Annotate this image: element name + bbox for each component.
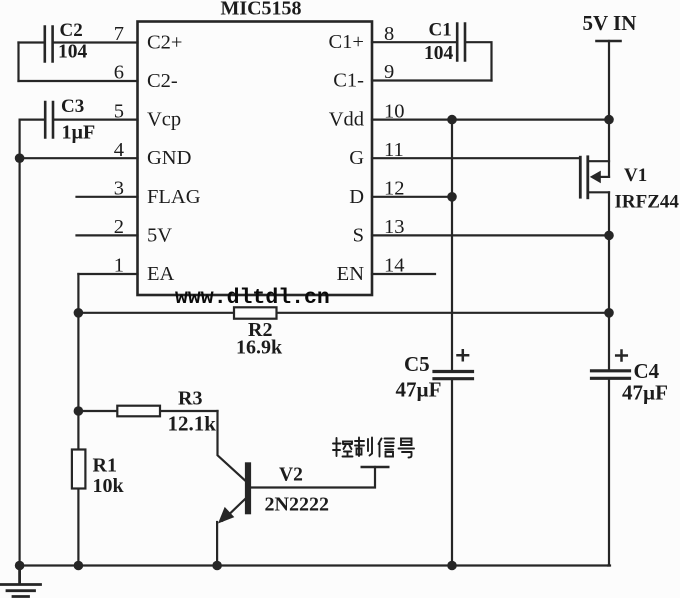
svg-text:C1: C1 [429, 20, 452, 41]
pin 7 wire [19, 41, 138, 43]
pin 3 wire stub [77, 196, 138, 198]
svg-text:4: 4 [114, 139, 124, 161]
pin 5 wire [20, 118, 138, 120]
svg-text:16.9k: 16.9k [236, 337, 283, 359]
svg-text:FLAG: FLAG [147, 186, 201, 208]
resistor R1 [72, 450, 125, 498]
pin 1 wire EA [78, 273, 137, 275]
node 5V IN terminal [597, 40, 621, 43]
pin 2 wire stub [77, 234, 138, 236]
node V2 emitter-bottom junction [212, 561, 222, 571]
pin 12 wire D [372, 196, 452, 198]
svg-text:12.1k: 12.1k [168, 412, 217, 436]
transistor V2 2N2222 [217, 462, 329, 565]
svg-text:MIC5158: MIC5158 [220, 0, 301, 20]
label 控制信号 control signal text [333, 438, 414, 458]
svg-text:1µF: 1µF [62, 122, 96, 144]
transistor V1 MOSFET [580, 157, 679, 213]
node Vdd-5VIN junction [604, 115, 614, 125]
svg-text:10: 10 [384, 100, 405, 122]
svg-text:3: 3 [114, 178, 124, 200]
svg-text:5V IN: 5V IN [583, 11, 637, 35]
svg-text:104: 104 [424, 43, 454, 64]
svg-text:6: 6 [114, 62, 124, 84]
svg-text:IRFZ44: IRFZ44 [615, 192, 680, 213]
resistor R2 wire [78, 312, 609, 314]
op-amp U1 MIC5158 IC body [138, 22, 373, 296]
svg-text:2N2222: 2N2222 [265, 494, 329, 516]
wire C2 loop left vertical [17, 43, 19, 82]
node Vdd-C5 junction [447, 115, 457, 125]
svg-text:Vcp: Vcp [147, 109, 181, 131]
svg-text:5: 5 [114, 100, 124, 122]
pin 10 wire Vdd [372, 118, 609, 120]
svg-text:EN: EN [337, 263, 365, 285]
wire V1 source to S rail [608, 192, 610, 371]
kong [333, 438, 341, 456]
pin 6 wire [19, 80, 138, 82]
svg-text:9: 9 [384, 61, 394, 83]
svg-text:D: D [349, 186, 364, 208]
svg-text:R3: R3 [178, 388, 202, 410]
pin 9 wire [372, 79, 492, 81]
wire C5 branch vertical [451, 120, 453, 372]
node EA-bottom junction [74, 561, 84, 571]
node GND left junction [15, 153, 25, 163]
ground [1, 566, 41, 597]
resistor R2 [234, 307, 283, 358]
node S junction [604, 231, 614, 241]
svg-text:5V: 5V [147, 224, 172, 246]
node control signal terminal [362, 466, 388, 469]
svg-text:Vdd: Vdd [329, 109, 364, 131]
wire EA vertical down [77, 274, 79, 566]
svg-text:www.dltdl.cn: www.dltdl.cn [175, 286, 330, 310]
svg-text:2: 2 [114, 216, 124, 238]
node EA-R2 junction [74, 308, 84, 318]
zhi [355, 438, 364, 457]
svg-text:C1+: C1+ [329, 31, 365, 53]
svg-text:C2-: C2- [147, 70, 178, 92]
svg-text:47µF: 47µF [622, 381, 668, 405]
wire bottom rail [20, 564, 610, 566]
resistor R3 wire [78, 410, 217, 412]
capacitor C1 [424, 20, 465, 65]
svg-text:S: S [353, 224, 364, 246]
xin [379, 439, 382, 457]
pin 11 wire G [372, 157, 580, 159]
svg-text:GND: GND [147, 147, 191, 169]
svg-text:7: 7 [114, 23, 124, 45]
svg-text:V1: V1 [624, 165, 647, 186]
svg-text:8: 8 [384, 23, 394, 45]
svg-text:14: 14 [384, 255, 405, 277]
svg-text:12: 12 [384, 178, 405, 200]
svg-text:C1-: C1- [333, 70, 364, 92]
pin 13 wire S [372, 234, 609, 236]
capacitor C4 [592, 351, 668, 405]
wire 5V IN vertical / V1 drain rail [608, 41, 610, 177]
svg-text:R1: R1 [93, 455, 117, 477]
capacitor C3 [45, 96, 95, 144]
pin 4 wire GND [20, 157, 138, 159]
svg-text:C5: C5 [404, 352, 430, 376]
node bottom-left junction [15, 561, 25, 571]
svg-text:C3: C3 [61, 96, 84, 117]
capacitor C5 [396, 350, 473, 401]
svg-text:EA: EA [147, 263, 175, 285]
wire left vertical to ground [19, 158, 21, 565]
wire C4 bottom vertical [608, 379, 609, 566]
wire C1 loop right [466, 42, 492, 80]
svg-text:C2+: C2+ [147, 32, 183, 54]
node R2-right junction [604, 308, 614, 318]
svg-text:C2: C2 [60, 20, 83, 41]
hao [401, 439, 412, 446]
capacitor C2 [45, 20, 88, 63]
svg-text:1: 1 [114, 255, 124, 277]
pin 8 wire [372, 41, 456, 43]
svg-text:47µF: 47µF [396, 378, 442, 402]
wire V2 base to control terminal [251, 467, 375, 488]
wire C3 to GND node vertical [19, 120, 21, 159]
svg-text:13: 13 [384, 216, 405, 238]
node D junction [447, 192, 457, 202]
svg-text:G: G [349, 147, 364, 169]
svg-text:V2: V2 [279, 465, 303, 486]
svg-text:11: 11 [384, 139, 404, 161]
pin 14 wire stub EN [372, 273, 435, 275]
node C5-bottom junction [447, 561, 457, 571]
wire R3 corner down to V2 collector [218, 411, 246, 481]
svg-text:104: 104 [58, 42, 88, 63]
svg-text:C4: C4 [634, 359, 660, 383]
resistor R3 [117, 388, 216, 436]
node EA-R3 junction [74, 406, 84, 416]
svg-text:10k: 10k [93, 475, 125, 497]
